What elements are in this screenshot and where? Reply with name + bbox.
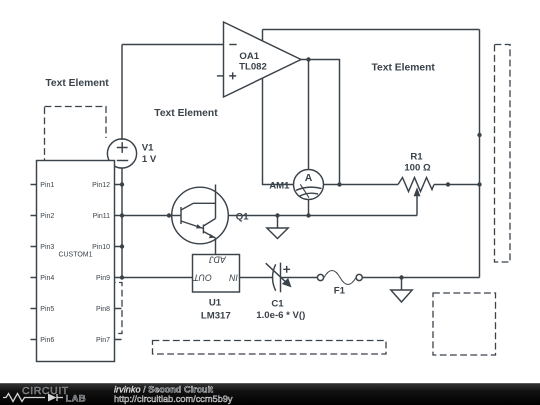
svg-text:TL082: TL082	[239, 61, 267, 72]
svg-text:CUSTOM1: CUSTOM1	[58, 252, 92, 259]
svg-text:Pin7: Pin7	[96, 337, 110, 344]
svg-text:Pin4: Pin4	[40, 275, 54, 282]
svg-text:Pin10: Pin10	[92, 244, 110, 251]
svg-text:ADJ: ADJ	[209, 255, 227, 265]
svg-text:1.0e-6 * V(): 1.0e-6 * V()	[256, 310, 305, 321]
svg-text:Pin6: Pin6	[40, 337, 54, 344]
svg-text:Pin3: Pin3	[40, 244, 54, 251]
svg-text:R1: R1	[410, 151, 423, 162]
svg-text:Text Element: Text Element	[372, 62, 436, 73]
svg-text:F1: F1	[334, 285, 346, 296]
svg-text:100 Ω: 100 Ω	[404, 163, 431, 174]
svg-text:CIRCUIT: CIRCUIT	[22, 385, 69, 397]
svg-text:http://circuitlab.com/ccm5b9y: http://circuitlab.com/ccm5b9y	[114, 394, 233, 404]
svg-text:OUT: OUT	[193, 273, 212, 283]
svg-text:Pin5: Pin5	[40, 306, 54, 313]
svg-text:Pin12: Pin12	[92, 182, 110, 189]
svg-text:LM317: LM317	[201, 310, 231, 321]
svg-text:irvinko / Second Circuit: irvinko / Second Circuit	[114, 384, 213, 394]
svg-text:Pin9: Pin9	[96, 275, 110, 282]
svg-text:V1: V1	[142, 142, 154, 153]
svg-text:Pin1: Pin1	[40, 182, 54, 189]
svg-text:1 V: 1 V	[142, 154, 157, 165]
svg-text:U1: U1	[209, 298, 222, 309]
svg-text:AM1: AM1	[269, 180, 290, 191]
svg-text:LAB: LAB	[66, 393, 86, 404]
svg-text:Pin8: Pin8	[96, 306, 110, 313]
svg-text:Pin2: Pin2	[40, 213, 54, 220]
svg-text:C1: C1	[271, 298, 284, 309]
svg-text:Pin11: Pin11	[93, 213, 110, 220]
svg-text:Text Element: Text Element	[154, 108, 218, 119]
svg-text:A: A	[305, 173, 313, 184]
svg-text:Q1: Q1	[236, 212, 249, 223]
svg-text:Text Element: Text Element	[45, 78, 109, 89]
svg-text:IN: IN	[229, 273, 238, 283]
